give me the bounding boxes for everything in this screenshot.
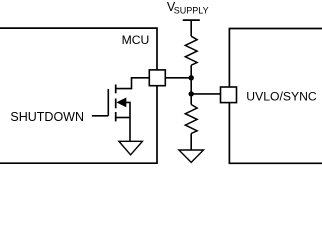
junction dot lower — [189, 91, 194, 96]
wire R1 to R2 through junctions — [190, 65, 192, 104]
ground (MOSFET source) — [119, 141, 142, 155]
transistor Q1 drain wire to MCU pin — [116, 78, 150, 89]
svg-text:UVLO/SYNC: UVLO/SYNC — [246, 90, 317, 104]
supply terminal bar — [183, 19, 200, 21]
resistor R2 — [185, 105, 197, 134]
transistor Q1 gate plate — [107, 89, 109, 116]
UVLO/SYNC pin square — [221, 87, 237, 103]
svg-text:MCU: MCU — [122, 33, 150, 47]
wire R2 to ground — [190, 134, 192, 151]
MCU pin square — [149, 70, 165, 86]
resistor R1 — [185, 36, 197, 65]
wire lower junction to UVLO/SYNC pin — [191, 93, 220, 95]
wire upper junction to MCU pin — [165, 77, 191, 79]
label V_SUPPLY — [167, 0, 209, 15]
ground (divider) — [179, 150, 204, 162]
transistor Q1 source wire — [116, 117, 130, 119]
junction dot upper — [189, 75, 194, 80]
transistor Q1 body arrow — [116, 98, 126, 108]
svg-text:SHUTDOWN: SHUTDOWN — [10, 110, 84, 124]
MCU box — [0, 28, 157, 163]
transistor Q1 body-to-source wire — [126, 102, 130, 141]
transistor Q1 channel segments — [115, 85, 117, 122]
UVLO/SYNC device box — [229, 29, 322, 164]
svg-text:SUPPLY: SUPPLY — [174, 5, 209, 15]
wire SHUTDOWN to gate — [92, 115, 108, 117]
wire supply bar to R1 — [190, 20, 192, 36]
